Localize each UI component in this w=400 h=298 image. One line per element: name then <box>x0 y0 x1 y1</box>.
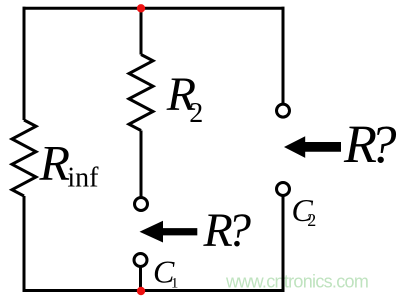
wire middle branch upper stub <box>140 8 143 54</box>
svg-text:?: ? <box>227 204 251 257</box>
svg-text:2: 2 <box>189 98 203 129</box>
wire right upper <box>282 7 285 104</box>
wire right lower <box>282 196 285 293</box>
wire left lower <box>23 196 26 292</box>
arrow R? bottom <box>140 221 198 243</box>
svg-text:2: 2 <box>307 210 316 230</box>
resistor R_inf <box>12 120 36 196</box>
node top junction (red) <box>137 4 145 12</box>
wire middle branch lower <box>140 131 143 198</box>
terminal circle C2 <box>277 183 290 196</box>
wire left upper <box>23 7 26 120</box>
svg-text:inf: inf <box>67 163 99 194</box>
terminal circle right upper <box>277 104 290 117</box>
svg-text:1: 1 <box>171 276 179 292</box>
wire bottom <box>23 289 285 292</box>
terminal circle C1 <box>134 254 147 267</box>
arrow R? right <box>284 136 341 158</box>
resistor R2 <box>129 55 153 131</box>
wire C1 stub <box>139 267 142 291</box>
terminal circle bottom of R2 branch <box>135 198 148 211</box>
svg-text:www.cntronics.com: www.cntronics.com <box>225 272 368 292</box>
node bottom junction (red) <box>137 287 145 295</box>
svg-text:R: R <box>39 135 71 191</box>
svg-text:?: ? <box>370 114 397 174</box>
wire top (node between R_inf, R2, right branch) <box>23 7 285 10</box>
